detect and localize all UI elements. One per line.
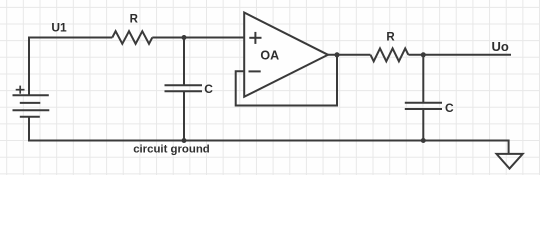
svg-text:Uo: Uo [492, 39, 509, 54]
svg-text:OA: OA [260, 48, 279, 62]
svg-text:R: R [386, 32, 395, 44]
svg-text:circuit ground: circuit ground [133, 143, 210, 155]
svg-text:U1: U1 [51, 20, 67, 34]
svg-text:C: C [204, 82, 213, 96]
svg-text:R: R [130, 14, 139, 26]
svg-text:C: C [445, 101, 454, 115]
